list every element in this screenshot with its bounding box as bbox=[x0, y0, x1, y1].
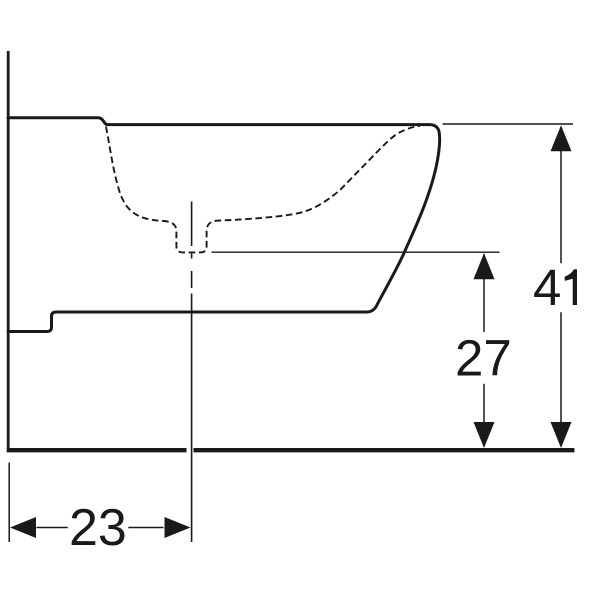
svg-text:23: 23 bbox=[69, 499, 127, 557]
svg-text:4: 4 bbox=[533, 259, 561, 316]
svg-text:27: 27 bbox=[455, 330, 512, 387]
